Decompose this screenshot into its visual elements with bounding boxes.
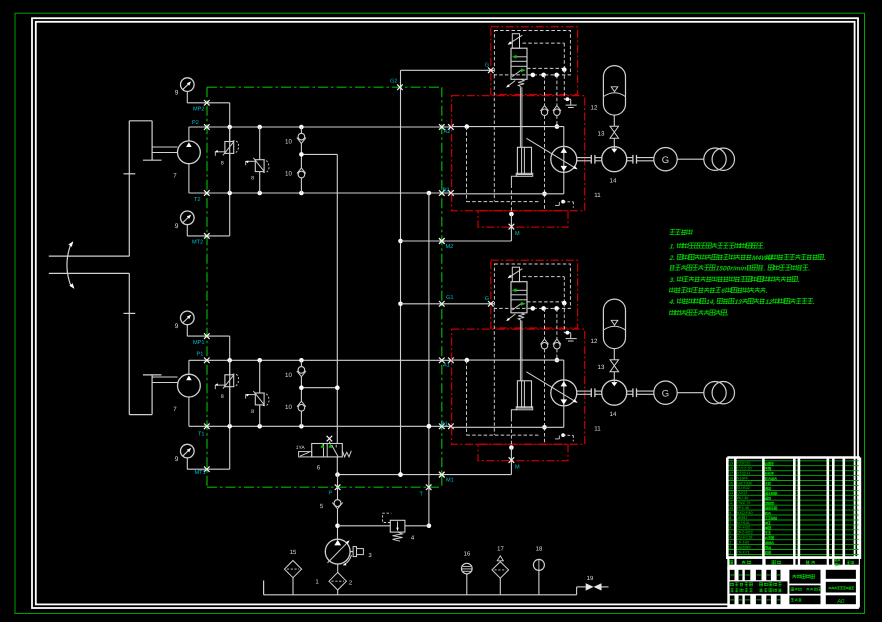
relief valve 8 (bottom second) bbox=[245, 360, 269, 426]
svg-text:6: 6 bbox=[317, 465, 321, 472]
svg-text:19: 19 bbox=[587, 575, 594, 582]
wire MT gauge line (bottom) bbox=[187, 468, 230, 470]
svg-text:MT2: MT2 bbox=[192, 239, 203, 245]
svg-text:P1: P1 bbox=[197, 352, 204, 358]
drain valve 19 bbox=[577, 575, 609, 595]
air filter 17 bbox=[492, 546, 509, 595]
svg-text:M: M bbox=[515, 231, 520, 237]
svg-text:8: 8 bbox=[221, 161, 224, 167]
svg-text:M1: M1 bbox=[446, 478, 454, 484]
svg-text:1: 1 bbox=[795, 491, 797, 495]
svg-text:LX-160: LX-160 bbox=[737, 541, 749, 545]
wire P line (bottom) bbox=[189, 358, 452, 363]
svg-text:4.: 4. bbox=[668, 299, 676, 306]
svg-text:YZB125: YZB125 bbox=[737, 462, 751, 466]
svg-text:6: 6 bbox=[729, 526, 731, 530]
wire G2 line bbox=[401, 69, 495, 71]
control valve dashed boundary (top) bbox=[494, 31, 570, 75]
svg-text:B1: B1 bbox=[441, 422, 448, 428]
servo pipe (bottom) bbox=[520, 321, 522, 381]
svg-text:8: 8 bbox=[251, 176, 254, 182]
level gauge 16 bbox=[462, 551, 473, 595]
motor control valve red enclosure (top) bbox=[491, 27, 578, 95]
svg-text:M: M bbox=[515, 465, 520, 471]
stroking cylinder (bottom) bbox=[511, 381, 532, 418]
svg-text:JB982: JB982 bbox=[737, 516, 748, 520]
wire MP gauge line (top) bbox=[187, 102, 230, 104]
svg-text:8: 8 bbox=[729, 516, 731, 520]
svg-text:G: G bbox=[485, 296, 489, 302]
title block lower grid bbox=[727, 567, 860, 607]
svg-text:13: 13 bbox=[598, 364, 605, 371]
svg-text:B2: B2 bbox=[443, 188, 450, 194]
drain red enclosure (top) bbox=[478, 211, 568, 227]
transformer (bottom) bbox=[704, 382, 735, 404]
svg-text:G: G bbox=[662, 155, 669, 166]
svg-text:8: 8 bbox=[251, 409, 254, 415]
port labels on enclosure bbox=[192, 79, 454, 498]
svg-text:16: 16 bbox=[729, 476, 733, 480]
svg-text:9: 9 bbox=[729, 511, 731, 515]
svg-text:1: 1 bbox=[795, 476, 797, 480]
wire MP gauge line (bottom) bbox=[187, 335, 230, 337]
check valve 10 (top lower) bbox=[297, 143, 306, 193]
test point X marks (top) bbox=[204, 100, 454, 239]
wire tank return line bbox=[264, 581, 577, 595]
pressure gauge 9 (bottom upper) bbox=[181, 311, 195, 336]
svg-text:7: 7 bbox=[729, 521, 731, 525]
rotation direction arrow bbox=[67, 241, 74, 289]
svg-text:11: 11 bbox=[594, 426, 601, 433]
svg-text:1: 1 bbox=[795, 531, 797, 535]
svg-text:1: 1 bbox=[795, 511, 797, 515]
accumulator 12 (bottom) bbox=[603, 299, 625, 360]
wire G/M bus vertical bbox=[398, 70, 403, 477]
svg-text:9: 9 bbox=[175, 456, 179, 463]
filter 2 bbox=[315, 564, 353, 595]
wire B port line (top) bbox=[452, 193, 564, 195]
svg-text:1: 1 bbox=[795, 536, 797, 540]
filter 15 bbox=[284, 549, 301, 595]
pilot lines (bottom) bbox=[523, 277, 567, 333]
check valve 10 (bottom lower) bbox=[297, 377, 306, 427]
svg-text:T: T bbox=[420, 492, 424, 498]
svg-text:12: 12 bbox=[591, 105, 598, 112]
item labels (top) bbox=[173, 90, 292, 230]
svg-text:MP1: MP1 bbox=[193, 340, 205, 346]
svg-text:P2: P2 bbox=[192, 120, 199, 126]
servo pipe (top) bbox=[520, 87, 522, 147]
svg-text:7: 7 bbox=[173, 406, 177, 413]
variable displacement motor (bottom) bbox=[526, 372, 577, 406]
svg-text:G: G bbox=[485, 63, 489, 69]
svg-text:10: 10 bbox=[285, 139, 292, 146]
svg-text:QUQ2: QUQ2 bbox=[737, 491, 748, 495]
pump 7 (top) bbox=[178, 127, 201, 193]
control valve dashed boundary (bottom) bbox=[494, 264, 570, 308]
charge pump 3 with motor bbox=[325, 539, 372, 565]
svg-text:NXQ-F40: NXQ-F40 bbox=[737, 511, 753, 515]
case drain symbol lower (top) bbox=[555, 200, 573, 208]
generator G (bottom) bbox=[654, 381, 677, 404]
svg-text:8: 8 bbox=[221, 394, 224, 400]
pilot check valve pair (bottom) bbox=[540, 308, 561, 443]
variable motor red enclosure 11 (top) bbox=[452, 96, 585, 211]
pump 7 (bottom) bbox=[178, 360, 201, 426]
wire B port line (bottom) bbox=[452, 426, 564, 428]
svg-text:M-H10L: M-H10L bbox=[737, 521, 751, 525]
svg-text:MP2: MP2 bbox=[193, 107, 205, 113]
wire generator to transformer (bottom) bbox=[677, 392, 704, 394]
svg-text:MT1: MT1 bbox=[195, 470, 206, 476]
svg-text:14,: 14, bbox=[706, 299, 716, 306]
fixed motor 14 (bottom) bbox=[602, 380, 627, 405]
svg-text:N16PF: N16PF bbox=[737, 476, 749, 480]
svg-text:10: 10 bbox=[285, 372, 292, 379]
svg-text:3.: 3. bbox=[669, 277, 676, 284]
wire M2 line bbox=[401, 227, 512, 244]
svg-text:1YA: 1YA bbox=[296, 445, 306, 451]
svg-text:CB-FC18: CB-FC18 bbox=[737, 536, 753, 540]
svg-text:12: 12 bbox=[765, 299, 774, 306]
rotor input shaft bbox=[49, 256, 130, 273]
svg-text:11: 11 bbox=[729, 501, 733, 505]
check valve 5 bbox=[320, 475, 343, 540]
case drain symbol upper (bottom) bbox=[564, 331, 576, 341]
svg-text:G1: G1 bbox=[446, 295, 453, 301]
technical notes text bbox=[668, 229, 826, 317]
svg-text:13: 13 bbox=[729, 491, 733, 495]
case drain symbol upper (top) bbox=[564, 97, 576, 107]
wire motor loop vertical (bottom) bbox=[563, 360, 565, 427]
svg-text:9: 9 bbox=[175, 223, 179, 230]
svg-text:2: 2 bbox=[729, 545, 731, 549]
wire T line (bottom) bbox=[189, 424, 452, 429]
wire M1 line bbox=[335, 460, 511, 477]
svg-text:10: 10 bbox=[285, 171, 292, 178]
wire P line (top) bbox=[189, 125, 452, 130]
svg-text:14: 14 bbox=[610, 178, 617, 185]
drain lines (top) bbox=[467, 75, 541, 227]
svg-text:CV12-20: CV12-20 bbox=[737, 467, 752, 471]
X marks on right green line bbox=[335, 84, 445, 490]
svg-text:1: 1 bbox=[795, 486, 797, 490]
svg-text:15: 15 bbox=[290, 549, 297, 556]
wire motor loop vertical (top) bbox=[563, 127, 565, 194]
shutoff valve 13 (bottom) bbox=[610, 360, 619, 387]
svg-text:16: 16 bbox=[464, 551, 471, 558]
servo control valve (top) bbox=[506, 34, 527, 88]
svg-text:G2: G2 bbox=[390, 79, 397, 85]
svg-text:17: 17 bbox=[497, 546, 504, 553]
title block parts list bbox=[727, 458, 860, 560]
svg-text:5: 5 bbox=[729, 531, 731, 535]
pressure gauge 9 (bottom lower) bbox=[181, 444, 195, 469]
wire A port line (bottom) bbox=[452, 358, 564, 363]
svg-text:M2: M2 bbox=[446, 244, 454, 250]
relief valve 8 (top first) bbox=[215, 127, 239, 193]
svg-text:1: 1 bbox=[795, 545, 797, 549]
svg-text:1: 1 bbox=[795, 501, 797, 505]
labels (bottom) bbox=[485, 296, 617, 471]
solenoid valve 6 bbox=[296, 436, 352, 475]
svg-text:DT02-H: DT02-H bbox=[737, 472, 751, 476]
fixed motor 14 (top) bbox=[602, 147, 627, 172]
svg-text:14: 14 bbox=[610, 411, 617, 418]
svg-text:T2: T2 bbox=[194, 197, 201, 203]
wire boost feed (top) bbox=[301, 153, 337, 155]
wire MT gauge line (top) bbox=[187, 235, 230, 237]
drain red enclosure (bottom) bbox=[478, 444, 568, 460]
case drain symbol lower (bottom) bbox=[555, 433, 573, 441]
svg-text:1: 1 bbox=[795, 506, 797, 510]
svg-text:4: 4 bbox=[729, 536, 731, 540]
svg-text:EF4-40: EF4-40 bbox=[737, 506, 749, 510]
svg-text:G: G bbox=[662, 388, 669, 399]
check valve 10 (bottom upper) bbox=[297, 360, 306, 376]
svg-text:1: 1 bbox=[795, 472, 797, 476]
shaft couplings (top) bbox=[577, 155, 654, 164]
svg-text:10: 10 bbox=[729, 506, 733, 510]
svg-text:YB-D71: YB-D71 bbox=[737, 550, 750, 554]
servo control valve (bottom) bbox=[506, 267, 527, 321]
thermometer 18 bbox=[533, 546, 544, 595]
svg-text:1: 1 bbox=[795, 541, 797, 545]
svg-text:1: 1 bbox=[729, 550, 731, 554]
svg-text:12: 12 bbox=[729, 496, 733, 500]
wire boost bus vertical bbox=[335, 154, 340, 443]
svg-text:QFZ-M22: QFZ-M22 bbox=[737, 531, 753, 535]
wire boost feed (bottom) bbox=[301, 387, 337, 389]
svg-text:9: 9 bbox=[175, 323, 179, 330]
svg-text:13: 13 bbox=[598, 131, 605, 138]
shaft couplings (bottom) bbox=[577, 388, 654, 397]
svg-text:10: 10 bbox=[285, 404, 292, 411]
pressure gauge 9 (top upper) bbox=[181, 78, 195, 103]
variable motor red enclosure 11 (bottom) bbox=[452, 329, 585, 444]
port X marks (top) bbox=[488, 68, 514, 230]
labels (top) bbox=[485, 63, 617, 238]
svg-text:18: 18 bbox=[536, 546, 543, 553]
svg-text:1: 1 bbox=[795, 467, 797, 471]
svg-text:18: 18 bbox=[729, 467, 733, 471]
wire B bus vertical bbox=[427, 193, 432, 528]
svg-text:1: 1 bbox=[795, 550, 797, 554]
svg-text:1: 1 bbox=[795, 462, 797, 466]
check valve 10 (top upper) bbox=[297, 127, 306, 143]
gearbox housing bbox=[124, 121, 162, 415]
relief valve 4 bbox=[338, 513, 429, 541]
svg-text:YWZ-76: YWZ-76 bbox=[737, 501, 751, 505]
svg-text:1.: 1. bbox=[669, 244, 676, 251]
pump drive shaft (top) bbox=[152, 147, 177, 153]
svg-text:9: 9 bbox=[175, 90, 179, 97]
svg-text:XU-B32: XU-B32 bbox=[737, 486, 750, 490]
wire G1 line bbox=[401, 303, 495, 305]
svg-text:1: 1 bbox=[795, 481, 797, 485]
svg-text:1: 1 bbox=[795, 526, 797, 530]
drain lines (bottom) bbox=[467, 308, 541, 460]
svg-text:T1: T1 bbox=[198, 432, 205, 438]
svg-text:GB/T308: GB/T308 bbox=[737, 481, 752, 485]
relief valve 8 (bottom first) bbox=[215, 360, 239, 426]
svg-text:15: 15 bbox=[729, 481, 733, 485]
svg-text:A0: A0 bbox=[836, 598, 845, 605]
wire gauge manifold vertical (top) bbox=[229, 103, 231, 236]
variable displacement motor (top) bbox=[526, 138, 577, 172]
svg-text:1: 1 bbox=[795, 496, 797, 500]
title block text bbox=[730, 575, 854, 606]
svg-text:A1: A1 bbox=[443, 363, 450, 369]
wire T line (top) bbox=[189, 191, 452, 196]
stroking cylinder (top) bbox=[511, 147, 532, 184]
pilot lines (top) bbox=[523, 43, 567, 99]
svg-text:WU-40: WU-40 bbox=[737, 496, 749, 500]
svg-text:GB2089: GB2089 bbox=[737, 545, 751, 549]
item labels (bottom) bbox=[173, 323, 292, 463]
shutoff valve 13 (top) bbox=[610, 126, 619, 153]
hydraulic power unit enclosure (green chain line) bbox=[207, 87, 442, 487]
parts list header row bbox=[727, 556, 860, 569]
wire A port line (top) bbox=[452, 124, 564, 129]
svg-text:A2: A2 bbox=[444, 129, 451, 135]
svg-text:1500r/min: 1500r/min bbox=[715, 266, 747, 273]
test point X marks (bottom) bbox=[204, 333, 454, 472]
svg-text:3: 3 bbox=[729, 541, 731, 545]
svg-text:17: 17 bbox=[729, 472, 733, 476]
motor control valve red enclosure (bottom) bbox=[491, 260, 578, 328]
svg-text:DF-H32: DF-H32 bbox=[737, 526, 750, 530]
svg-text:11: 11 bbox=[594, 192, 601, 199]
svg-text:1: 1 bbox=[795, 516, 797, 520]
svg-text:P: P bbox=[329, 491, 333, 497]
port X marks (bottom) bbox=[488, 301, 514, 463]
generator G (top) bbox=[654, 148, 677, 171]
accumulator 12 (top) bbox=[603, 66, 625, 127]
svg-text:19: 19 bbox=[729, 462, 733, 466]
svg-text:13: 13 bbox=[734, 299, 743, 306]
svg-text:1: 1 bbox=[795, 521, 797, 525]
pilot check valve pair (top) bbox=[540, 75, 561, 210]
wire generator to transformer (top) bbox=[677, 158, 704, 160]
svg-text:12: 12 bbox=[591, 338, 598, 345]
svg-text:2.: 2. bbox=[668, 255, 676, 262]
pump drive shaft (bottom) bbox=[152, 377, 177, 383]
parts list row text bbox=[729, 462, 797, 555]
transformer (top) bbox=[704, 148, 735, 170]
pressure gauge 9 (top lower) bbox=[181, 211, 195, 236]
relief valve 8 (top second) bbox=[245, 127, 269, 193]
svg-text:7: 7 bbox=[173, 173, 177, 180]
wire gauge manifold vertical (bottom) bbox=[229, 336, 231, 469]
svg-text:14: 14 bbox=[729, 486, 733, 490]
